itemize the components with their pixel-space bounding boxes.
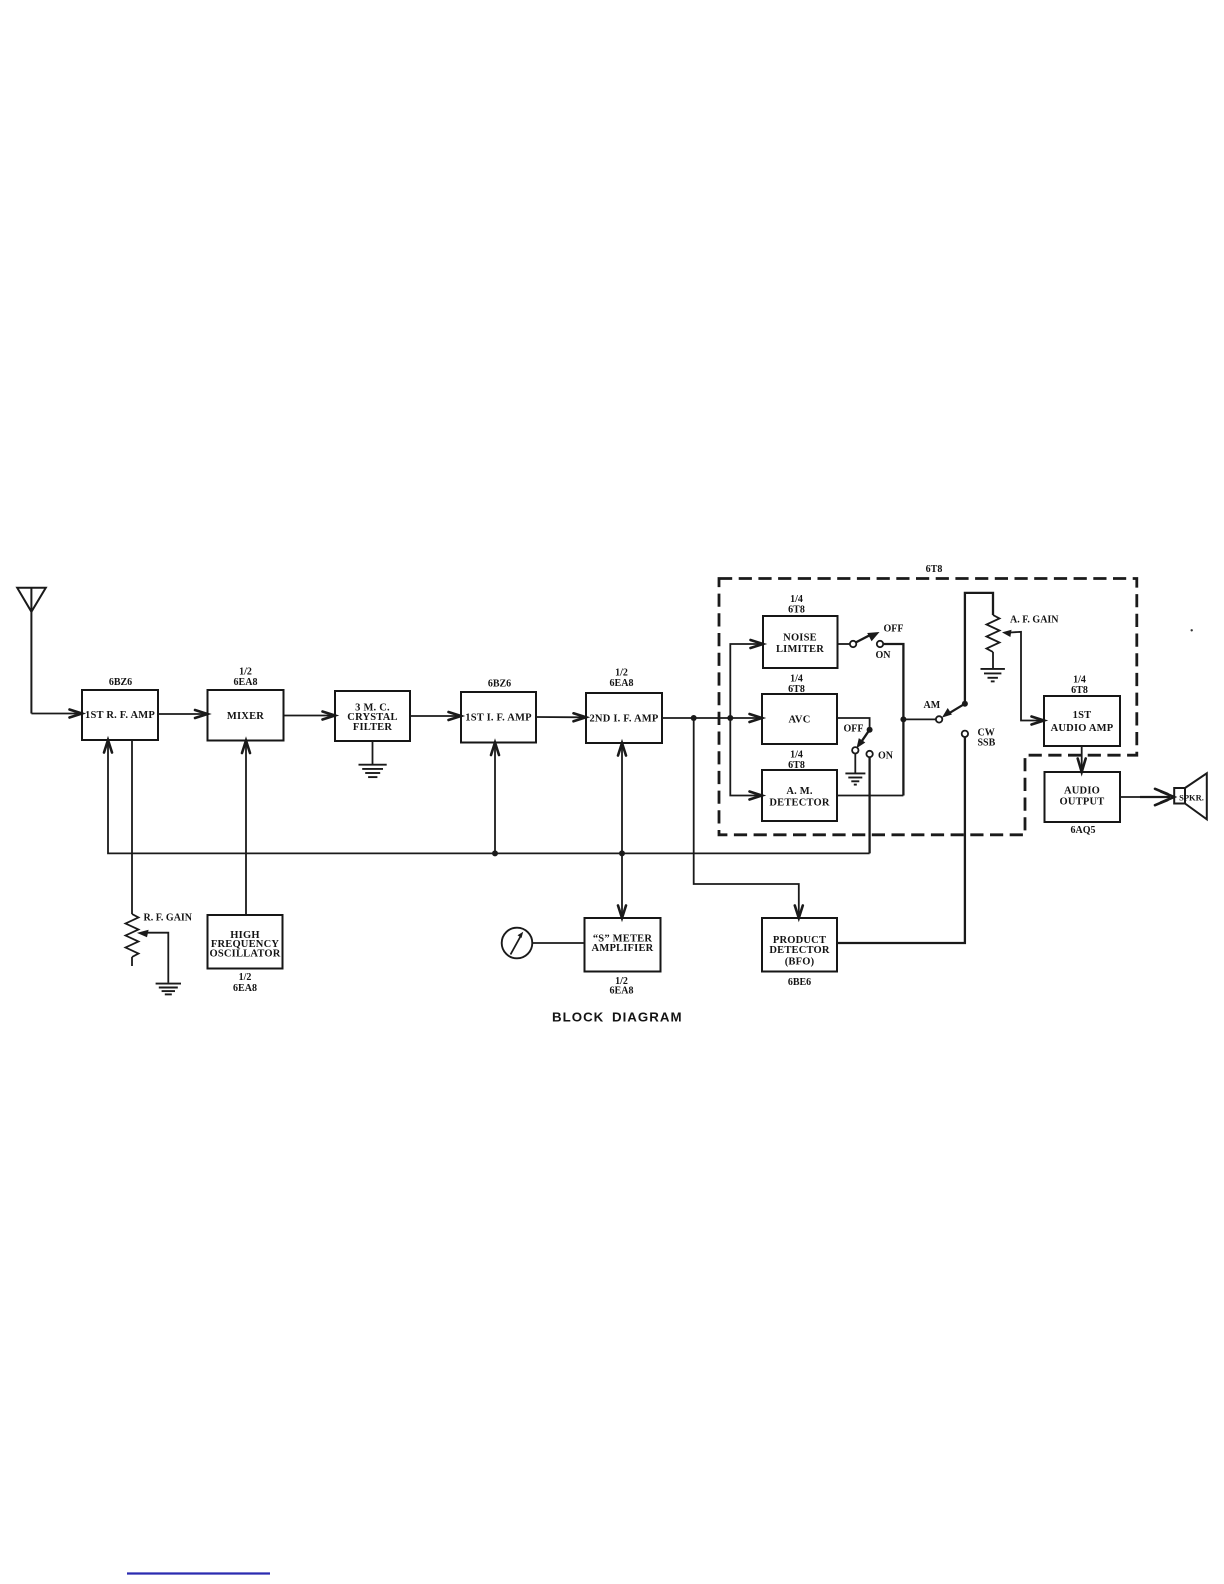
block 3 M.C. CRYSTAL FILTER [335, 691, 410, 741]
svg-text:DIAGRAM: DIAGRAM [612, 1010, 683, 1025]
svg-text:1/2: 1/2 [615, 668, 628, 679]
ground (AVC off position) [845, 773, 865, 784]
svg-text:1/4: 1/4 [790, 750, 803, 761]
wire AVC bus (feedback line) [108, 743, 870, 853]
block 1ST AUDIO AMP [1044, 696, 1120, 746]
svg-text:AMPLIFIER: AMPLIFIER [592, 943, 654, 954]
speaker SPKR [1174, 773, 1207, 819]
wire 1ST I.F. AMP to 2ND I.F. AMP [536, 716, 583, 718]
svg-text:1ST R. F. AMP: 1ST R. F. AMP [85, 710, 155, 721]
svg-text:FILTER: FILTER [353, 722, 393, 733]
potentiometer A.F. GAIN [987, 615, 1000, 668]
ground (crystal filter) [359, 765, 387, 777]
svg-text:1/2: 1/2 [239, 667, 252, 678]
svg-text:6EA8: 6EA8 [610, 986, 634, 997]
ground (R.F. GAIN) [156, 984, 181, 995]
svg-text:ON: ON [876, 650, 892, 661]
dashed enclosure 6T8 envelope [719, 579, 1137, 835]
junction S3 pivot on A.F. gain line [962, 701, 968, 707]
block 1ST I.F. AMP [461, 692, 536, 743]
svg-text:R. F. GAIN: R. F. GAIN [144, 913, 193, 924]
wire meter to S meter amplifier [532, 942, 584, 944]
blue rule (page artifact) [127, 1572, 270, 1574]
svg-text:6BZ6: 6BZ6 [488, 679, 511, 690]
block "S" METER AMPLIFIER [585, 918, 661, 972]
wire junction to S meter amplifier [621, 853, 623, 914]
block NOISE LIMITER [763, 616, 838, 668]
switch S3 CW/SSB contact [962, 731, 968, 737]
switch S2 ON contact [866, 751, 872, 757]
svg-text:OFF: OFF [844, 724, 864, 735]
svg-text:2ND I. F. AMP: 2ND I. F. AMP [589, 714, 658, 725]
junction selector bus to AM contact [900, 716, 906, 722]
wire AVC output to AVC switch [837, 718, 870, 728]
svg-text:DETECTOR: DETECTOR [769, 945, 830, 956]
wire A.F. GAIN wiper to 1ST AUDIO AMP [1002, 630, 1012, 637]
svg-text:OUTPUT: OUTPUT [1060, 797, 1105, 808]
svg-text:1/2: 1/2 [239, 972, 252, 983]
wire 2nd IF output down to product detector [694, 718, 799, 914]
wire 1ST AUDIO AMP to AUDIO OUTPUT [1081, 746, 1083, 768]
svg-text:6AQ5: 6AQ5 [1071, 825, 1096, 836]
wire antenna to 1ST R.F. AMP [31, 713, 79, 715]
svg-text:SPKR.: SPKR. [1179, 793, 1204, 803]
block 2ND I.F. AMP [586, 693, 662, 743]
svg-text:OFF: OFF [884, 624, 904, 635]
svg-text:AUDIO AMP: AUDIO AMP [1051, 723, 1114, 734]
svg-text:6T8: 6T8 [788, 760, 805, 771]
svg-text:BLOCK: BLOCK [552, 1010, 604, 1025]
switch S1 ON contact [877, 641, 883, 647]
wire 1ST R.F. AMP to MIXER [158, 713, 205, 715]
wire H.F. oscillator to MIXER [245, 744, 247, 915]
wire S3 pivot up to A.F. GAIN pot [965, 593, 993, 704]
svg-text:AVC: AVC [789, 715, 811, 726]
junction AVC switch pivot [867, 727, 873, 733]
wire R.F. GAIN wiper to ground [137, 930, 149, 938]
block AVC [762, 694, 837, 744]
meter M1 (S meter) [502, 928, 533, 959]
svg-text:AM: AM [924, 700, 941, 711]
wire AVC bus to 1ST I.F. AMP [494, 746, 496, 854]
wire MIXER to crystal filter [284, 715, 333, 717]
wire 2ND I.F. AMP output to detector branch junction [662, 717, 759, 719]
svg-text:6BE6: 6BE6 [788, 977, 811, 988]
block AUDIO OUTPUT [1045, 772, 1121, 822]
svg-text:6EA8: 6EA8 [234, 677, 258, 688]
svg-text:1ST: 1ST [1073, 710, 1092, 721]
wire noise limiter output to switch [838, 643, 850, 645]
wire branch down to A.M. detector [730, 718, 759, 796]
svg-text:6T8: 6T8 [1071, 685, 1088, 696]
junction AVC bus / 2nd IF amp / S meter [619, 850, 625, 856]
svg-text:ON: ON [878, 751, 894, 762]
svg-text:6EA8: 6EA8 [610, 678, 634, 689]
switch S2 AVC arm (pointing to OFF/ground) [862, 730, 870, 741]
switch S2 OFF contact (grounded) [852, 747, 858, 753]
svg-text:NOISE: NOISE [783, 633, 817, 644]
svg-text:(BFO): (BFO) [785, 956, 815, 967]
wire crystal filter to 1ST I.F. AMP [410, 715, 458, 717]
wire AUDIO OUTPUT to speaker [1120, 796, 1170, 798]
wire AVC bus to 2ND I.F. AMP [621, 746, 623, 853]
block HIGH FREQUENCY OSCILLATOR [208, 915, 283, 969]
junction AVC bus to 1st IF amp [492, 850, 498, 856]
svg-text:DETECTOR: DETECTOR [769, 798, 830, 809]
junction detector branch split [727, 715, 733, 721]
antenna [17, 588, 46, 714]
svg-text:1/4: 1/4 [1073, 675, 1086, 686]
block MIXER [208, 690, 284, 741]
svg-text:6BZ6: 6BZ6 [109, 677, 132, 688]
switch S3 arm (pointing to AM) [950, 704, 965, 713]
wire selector bus junction to AM contact [903, 718, 935, 720]
wire crystal filter ground lead [372, 741, 374, 764]
wire 1ST R.F. AMP to R.F. GAIN pot [131, 740, 133, 914]
svg-text:AUDIO: AUDIO [1064, 786, 1100, 797]
switch S1 arm (pointing to OFF) [856, 635, 870, 642]
svg-text:6T8: 6T8 [788, 684, 805, 695]
block 1ST R.F. AMP [82, 690, 158, 740]
wire AVC ON contact down to AVC bus [868, 757, 870, 853]
svg-text:MIXER: MIXER [227, 711, 264, 722]
block A.M. DETECTOR [762, 770, 837, 821]
svg-text:6EA8: 6EA8 [233, 983, 257, 994]
svg-text:A. F. GAIN: A. F. GAIN [1010, 615, 1059, 626]
svg-text:SSB: SSB [978, 738, 996, 749]
stray ink dot [1191, 629, 1193, 631]
wire A.M. detector output to selector bus [837, 795, 903, 797]
svg-text:1/4: 1/4 [790, 594, 803, 605]
svg-text:1/4: 1/4 [790, 674, 803, 685]
block PRODUCT DETECTOR (BFO) [762, 918, 837, 972]
wire branch up to noise limiter [730, 644, 760, 718]
svg-text:OSCILLATOR: OSCILLATOR [209, 949, 280, 960]
junction 2nd IF output / product detector feed [691, 715, 697, 721]
svg-text:6T8: 6T8 [788, 605, 805, 616]
svg-text:1ST I. F. AMP: 1ST I. F. AMP [465, 713, 532, 724]
potentiometer R.F. GAIN [126, 914, 139, 966]
switch S1 noise limiter pole [850, 641, 856, 647]
switch S3 AM contact [936, 716, 942, 722]
svg-text:LIMITER: LIMITER [776, 644, 824, 655]
ground (A.F. GAIN) [981, 669, 1005, 682]
svg-text:A. M.: A. M. [786, 786, 813, 797]
wire product detector output to CW/SSB contact [837, 737, 965, 943]
wire noise limiter ON contact to selector bus [883, 644, 903, 796]
wire OFF contact to ground [854, 754, 856, 773]
svg-text:6T8: 6T8 [926, 564, 943, 575]
